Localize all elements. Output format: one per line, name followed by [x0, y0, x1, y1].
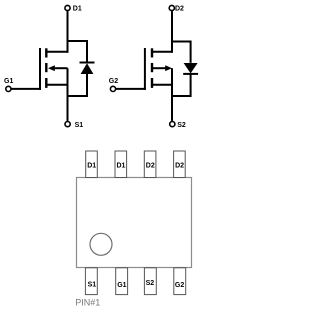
wire Q2 body stub	[152, 67, 166, 69]
svg-text:D2: D2	[175, 6, 184, 13]
diode D1 body triangle	[81, 63, 94, 74]
svg-text:D1: D1	[117, 162, 126, 169]
pin 7 D1	[115, 151, 127, 178]
pin 1 indicator circle	[90, 233, 112, 255]
svg-text:D1: D1	[87, 162, 96, 169]
wire source Q2	[171, 68, 173, 121]
pin 2 G1	[116, 268, 128, 295]
svg-text:D2: D2	[175, 162, 184, 169]
node S1 terminal	[65, 122, 70, 127]
svg-text:D1: D1	[73, 6, 82, 13]
wire gate G1	[11, 88, 41, 90]
node G2 terminal	[110, 86, 115, 91]
diode D2 body triangle	[184, 63, 198, 73]
node D1 terminal	[65, 5, 70, 10]
wire diode anode to source Q1	[67, 74, 88, 96]
svg-text:S1: S1	[75, 122, 84, 129]
diode D2 body cathode bar	[183, 73, 198, 75]
svg-text:S1: S1	[88, 281, 97, 288]
pin 4 G2	[174, 268, 186, 295]
transistor Q2 channel mid bar	[151, 63, 153, 72]
pin 6 D2	[144, 151, 156, 178]
svg-text:G2: G2	[175, 282, 184, 289]
wire Q1 body stub	[54, 67, 68, 69]
wire gate G2	[116, 88, 146, 90]
node G1 terminal	[6, 86, 11, 91]
transistor Q1 channel mid bar	[45, 63, 47, 72]
wire drain Q1	[67, 11, 69, 53]
package body SOIC-8	[77, 178, 192, 268]
wire Q1 source stub	[46, 84, 67, 86]
transistor Q2 channel bottom bar	[151, 78, 153, 88]
wire drain to diode branch Q2	[171, 42, 191, 63]
transistor Q1 channel top bar	[45, 48, 47, 57]
transistor Q2 body arrow	[165, 65, 172, 71]
svg-text:S2: S2	[146, 280, 155, 287]
transistor Q1 channel bottom bar	[45, 78, 47, 88]
svg-text:D2: D2	[146, 162, 155, 169]
wire Q2 source stub	[152, 84, 172, 86]
pin 8 D1	[86, 151, 98, 178]
pin 5 D2	[174, 151, 186, 178]
diode D1 body cathode bar	[80, 62, 95, 64]
transistor Q1 body arrow	[48, 65, 55, 71]
transistor Q1 gate bar	[39, 48, 41, 90]
transistor Q2 gate bar	[144, 48, 146, 90]
wire diode cathode to source Q2	[171, 75, 191, 97]
node D2 terminal	[169, 5, 174, 10]
pin 1 S1	[85, 268, 97, 295]
node S2 terminal	[170, 122, 175, 127]
svg-text:G1: G1	[4, 78, 13, 85]
svg-text:PIN#1: PIN#1	[75, 298, 100, 308]
wire drain to diode branch Q1	[67, 41, 88, 63]
pin 3 S2	[144, 268, 156, 295]
transistor Q2 channel top bar	[151, 48, 153, 57]
svg-text:G2: G2	[109, 78, 118, 85]
wire source Q1	[67, 68, 69, 121]
svg-text:S2: S2	[177, 122, 186, 129]
wire Q2 drain stub	[152, 51, 172, 53]
wire drain Q2	[171, 11, 173, 53]
wire Q1 drain stub	[46, 51, 67, 53]
svg-text:G1: G1	[117, 282, 126, 289]
